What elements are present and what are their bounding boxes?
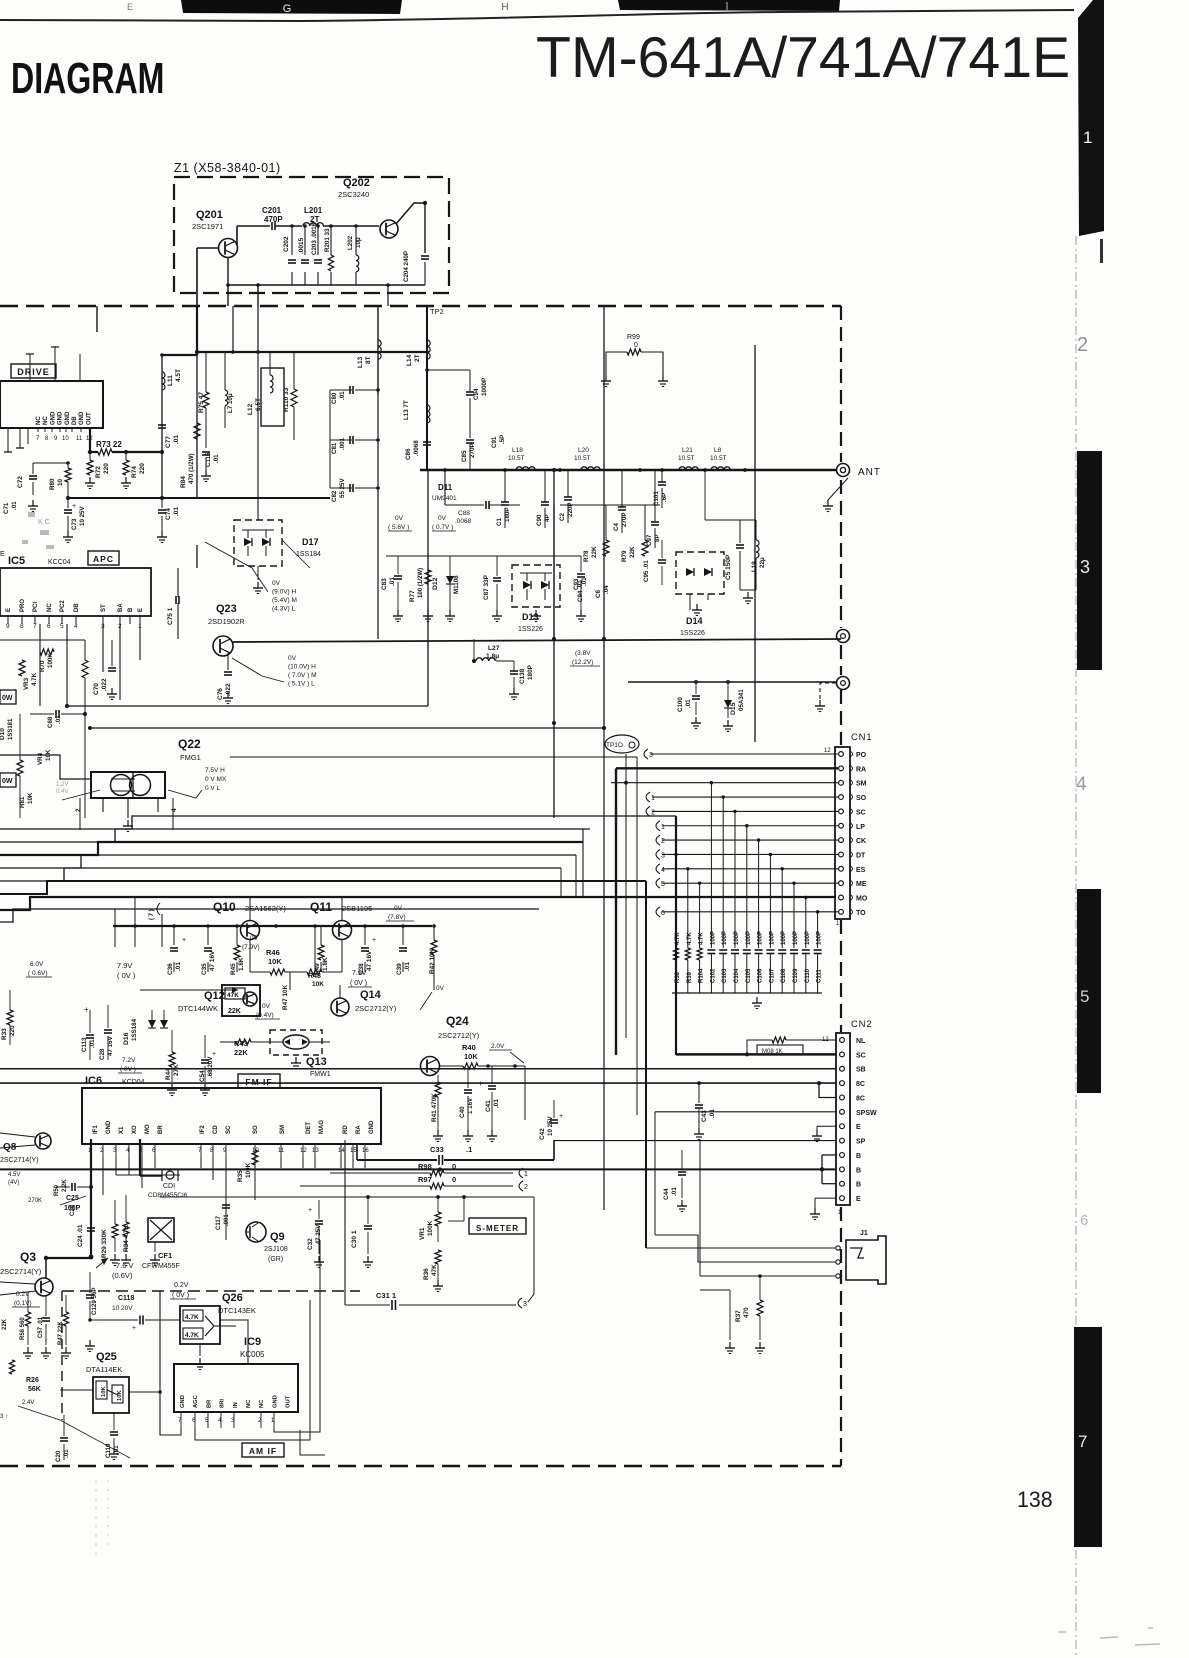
svg-text:R36: R36 <box>423 1268 430 1280</box>
svg-text:IF2: IF2 <box>200 1125 206 1134</box>
svg-text:6: 6 <box>1080 1212 1088 1229</box>
svg-text:C90: C90 <box>536 514 543 526</box>
svg-text:CFWM455F: CFWM455F <box>142 1263 180 1270</box>
svg-text:C57 .01: C57 .01 <box>38 1316 44 1338</box>
svg-text:SM: SM <box>856 781 867 788</box>
svg-text:GND: GND <box>106 1120 112 1134</box>
svg-text:R45: R45 <box>230 963 237 975</box>
svg-text:4: 4 <box>171 808 178 812</box>
svg-text:C82: C82 <box>331 490 338 502</box>
svg-text:GND: GND <box>65 411 71 425</box>
svg-text:R35: R35 <box>237 1170 244 1182</box>
svg-text:DTC143EK: DTC143EK <box>218 1306 256 1315</box>
svg-text:47 16V: 47 16V <box>209 950 216 971</box>
svg-text:PCI: PCI <box>33 602 39 612</box>
svg-text:VR1: VR1 <box>419 1227 426 1240</box>
svg-text:100P: 100P <box>805 931 811 945</box>
svg-text:10.5T: 10.5T <box>710 455 727 462</box>
svg-text:4P: 4P <box>544 514 551 522</box>
svg-text:270P: 270P <box>621 513 628 527</box>
svg-text:C5 150P: C5 150P <box>725 554 732 580</box>
svg-text:3 ↑: 3 ↑ <box>0 1414 8 1420</box>
svg-text:C36: C36 <box>167 963 174 975</box>
svg-text:C88: C88 <box>458 510 470 517</box>
svg-text:5: 5 <box>60 623 64 630</box>
svg-text:SC: SC <box>856 1052 866 1059</box>
svg-text:E: E <box>0 551 5 558</box>
svg-text:(4.3V) L: (4.3V) L <box>272 606 296 613</box>
svg-text:270K: 270K <box>28 1198 42 1204</box>
svg-text:2SC1971: 2SC1971 <box>192 222 223 231</box>
svg-text:C91: C91 <box>491 436 498 448</box>
svg-text:.01: .01 <box>213 454 220 463</box>
svg-text:LP: LP <box>856 824 865 831</box>
svg-text:C43: C43 <box>701 1110 708 1122</box>
svg-text:D17: D17 <box>302 537 319 547</box>
svg-text:.01: .01 <box>685 699 692 708</box>
svg-text:R70: R70 <box>39 660 46 672</box>
svg-text:2SD1902R: 2SD1902R <box>208 617 245 626</box>
svg-text:Q12: Q12 <box>204 990 225 1002</box>
svg-text:4.7K: 4.7K <box>699 932 705 945</box>
svg-text:7.9V: 7.9V <box>117 961 132 970</box>
svg-text:R98: R98 <box>418 1162 432 1171</box>
svg-text:+: + <box>132 1325 136 1332</box>
svg-text:4.7K: 4.7K <box>185 1332 199 1339</box>
svg-text:C87 33P: C87 33P <box>483 574 490 600</box>
svg-text:B: B <box>856 1153 861 1160</box>
svg-text:7.9V: 7.9V <box>352 970 367 977</box>
svg-text:3: 3 <box>523 1301 527 1308</box>
svg-text:GND: GND <box>180 1395 186 1408</box>
svg-text:XO: XO <box>132 1125 138 1134</box>
svg-text:L13: L13 <box>357 356 364 368</box>
svg-text:(5.4V) M: (5.4V) M <box>272 597 297 604</box>
svg-text:470 (1/2W): 470 (1/2W) <box>188 453 195 484</box>
svg-text:D12: D12 <box>432 577 439 590</box>
svg-text:TM-641A/741A/741E: TM-641A/741A/741E <box>536 26 1070 90</box>
svg-text:R33: R33 <box>1 1028 8 1040</box>
svg-text:100K: 100K <box>427 1220 434 1236</box>
svg-text:SM: SM <box>280 1125 286 1134</box>
svg-text:(4V): (4V) <box>8 1180 19 1186</box>
svg-text:GND: GND <box>369 1120 375 1134</box>
svg-text:C68: C68 <box>47 716 54 728</box>
svg-text:DB: DB <box>74 603 80 612</box>
svg-text:SC: SC <box>856 809 866 816</box>
svg-text:2SC2714(Y): 2SC2714(Y) <box>0 1157 39 1164</box>
svg-text:4.7K: 4.7K <box>31 672 38 686</box>
svg-text:IN: IN <box>233 1402 239 1408</box>
svg-text:7.5V H: 7.5V H <box>205 767 225 774</box>
svg-text:22K: 22K <box>2 1318 8 1330</box>
svg-text:.0068: .0068 <box>413 440 420 456</box>
svg-text:470P: 470P <box>264 215 283 224</box>
svg-text:NL: NL <box>856 1038 866 1045</box>
svg-text:APC: APC <box>93 554 114 564</box>
svg-text:B: B <box>856 1182 861 1189</box>
svg-text:PRO: PRO <box>20 599 26 612</box>
svg-text:0V: 0V <box>250 935 259 942</box>
svg-text:+: + <box>212 1051 216 1058</box>
svg-text:M1108: M1108 <box>453 575 460 594</box>
svg-text:RA: RA <box>856 766 866 773</box>
svg-text:180P: 180P <box>527 664 534 680</box>
svg-text:.022: .022 <box>101 678 108 691</box>
svg-text:PO: PO <box>856 752 867 759</box>
svg-text:100P: 100P <box>746 931 752 945</box>
svg-text:ME: ME <box>856 881 867 888</box>
svg-text:C1: C1 <box>496 518 503 526</box>
svg-text:3: 3 <box>661 852 665 859</box>
svg-text:+: + <box>478 1079 483 1088</box>
svg-text:0V: 0V <box>394 905 403 912</box>
svg-text:C118: C118 <box>118 1295 134 1302</box>
svg-text:C95 .01: C95 .01 <box>643 560 650 582</box>
svg-text:C101: C101 <box>653 491 660 506</box>
svg-text:4: 4 <box>661 867 665 874</box>
svg-text:.001: .001 <box>339 437 346 450</box>
svg-text:BA: BA <box>118 603 124 612</box>
svg-text:100P: 100P <box>758 931 764 945</box>
svg-text:KCD04: KCD04 <box>122 1079 145 1086</box>
svg-text:C94: C94 <box>473 388 480 400</box>
svg-text:C117: C117 <box>216 1215 222 1230</box>
svg-text:2: 2 <box>1077 334 1088 356</box>
svg-text:4.5V: 4.5V <box>8 1172 20 1178</box>
svg-text:ES: ES <box>856 867 866 874</box>
svg-text:CN1: CN1 <box>851 732 872 743</box>
svg-text:R79: R79 <box>621 550 628 562</box>
svg-text:SO: SO <box>856 795 867 802</box>
svg-text:(9.0V) H: (9.0V) H <box>272 589 297 596</box>
svg-text:2: 2 <box>75 808 82 812</box>
svg-text:2SC2712(Y): 2SC2712(Y) <box>355 1004 397 1013</box>
svg-text:VR3: VR3 <box>23 677 30 690</box>
svg-text:0V: 0V <box>272 580 281 587</box>
svg-text:1.8K: 1.8K <box>238 957 245 971</box>
svg-text:C83: C83 <box>381 578 388 590</box>
svg-text:L13 7T: L13 7T <box>403 400 410 420</box>
svg-text:100P: 100P <box>769 931 775 945</box>
svg-text:27K: 27K <box>173 1064 180 1076</box>
svg-text:C202: C202 <box>283 236 290 252</box>
svg-text:0W: 0W <box>2 695 13 702</box>
svg-text:Q3: Q3 <box>20 1250 36 1264</box>
svg-text:SC: SC <box>226 1125 232 1134</box>
svg-text:Q11: Q11 <box>310 900 332 914</box>
svg-text:9: 9 <box>6 623 10 630</box>
svg-text:13: 13 <box>312 1148 319 1154</box>
svg-text:CD8M455CI6: CD8M455CI6 <box>148 1192 188 1199</box>
svg-text:05A341: 05A341 <box>738 689 745 711</box>
svg-text:10 20V: 10 20V <box>112 1305 133 1312</box>
svg-text:C20: C20 <box>70 1204 76 1216</box>
svg-text:10.5T: 10.5T <box>508 455 525 462</box>
svg-text:SPSW: SPSW <box>856 1110 877 1117</box>
svg-text:(7.9V): (7.9V) <box>242 944 260 951</box>
svg-text:FMW1: FMW1 <box>310 1071 331 1078</box>
svg-text:1: 1 <box>524 1171 528 1178</box>
svg-text:C80: C80 <box>331 392 338 404</box>
svg-text:( 0V ): ( 0V ) <box>117 971 136 980</box>
svg-text:R46: R46 <box>266 948 280 957</box>
svg-text:FMG1: FMG1 <box>180 753 201 762</box>
svg-text:B: B <box>128 607 134 612</box>
svg-text:10μ: 10μ <box>355 237 362 248</box>
svg-text:0V: 0V <box>395 515 404 522</box>
svg-text:220: 220 <box>103 463 110 474</box>
svg-text:E: E <box>6 608 12 612</box>
svg-text:R26: R26 <box>26 1377 39 1384</box>
svg-text:DTC144WK: DTC144WK <box>178 1004 218 1013</box>
svg-text:AM IF: AM IF <box>249 1446 277 1456</box>
svg-text:.01: .01 <box>11 501 18 510</box>
svg-text:1: 1 <box>661 824 665 831</box>
svg-text:10K: 10K <box>101 1386 107 1397</box>
svg-text:0V: 0V <box>288 655 297 662</box>
svg-text:2: 2 <box>661 838 665 845</box>
svg-text:ST: ST <box>101 604 107 612</box>
svg-text:+: + <box>308 1207 312 1214</box>
svg-text:7.2V: 7.2V <box>122 1057 136 1064</box>
svg-text:K C: K C <box>38 519 50 526</box>
svg-text:( 0.7V ): ( 0.7V ) <box>432 524 453 531</box>
svg-text:100P: 100P <box>817 931 823 945</box>
svg-text:(7.8V): (7.8V) <box>388 914 406 921</box>
svg-text:Q14: Q14 <box>360 989 382 1001</box>
svg-text:NC: NC <box>259 1399 265 1408</box>
svg-text:Q13: Q13 <box>306 1056 327 1068</box>
svg-text:Z1 (X58-3840-01): Z1 (X58-3840-01) <box>174 161 281 175</box>
svg-text:2SC2714(Y): 2SC2714(Y) <box>0 1267 42 1276</box>
svg-text:C72: C72 <box>17 476 24 488</box>
svg-text:2: 2 <box>651 809 655 816</box>
svg-text:Q23: Q23 <box>216 603 237 615</box>
svg-text:C32: C32 <box>307 1238 314 1250</box>
svg-text:5: 5 <box>1080 987 1089 1006</box>
svg-text:+: + <box>372 937 376 944</box>
svg-text:B: B <box>856 1167 861 1174</box>
svg-text:2SC2712(Y): 2SC2712(Y) <box>438 1031 480 1040</box>
svg-text:.01: .01 <box>404 962 411 971</box>
svg-text:C76: C76 <box>217 688 224 700</box>
svg-text:10K: 10K <box>312 981 324 988</box>
svg-text:0: 0 <box>634 342 638 349</box>
svg-text:2.4V: 2.4V <box>22 1400 34 1406</box>
svg-text:NC: NC <box>47 603 53 612</box>
svg-text:R29 330K: R29 330K <box>101 1229 108 1258</box>
svg-text:C203 .0018: C203 .0018 <box>311 222 318 255</box>
svg-text:7.6 V: 7.6 V <box>116 1261 134 1270</box>
svg-text:22μ: 22μ <box>759 557 766 568</box>
svg-text:BR: BR <box>206 1399 212 1408</box>
svg-text:2: 2 <box>524 1184 528 1191</box>
svg-text:C39: C39 <box>396 963 403 975</box>
svg-text:R77: R77 <box>409 590 416 602</box>
svg-text:C70: C70 <box>93 683 100 695</box>
svg-text:C201: C201 <box>262 206 282 215</box>
svg-text:5: 5 <box>661 881 665 888</box>
svg-text:.01: .01 <box>671 1187 678 1196</box>
svg-text:C2: C2 <box>559 513 566 521</box>
svg-text:10K: 10K <box>464 1052 478 1061</box>
svg-text:470: 470 <box>743 1307 750 1318</box>
svg-text:(0.1V): (0.1V) <box>14 1300 32 1307</box>
svg-text:KC005: KC005 <box>240 1350 265 1359</box>
svg-text:KCC04: KCC04 <box>48 559 71 566</box>
svg-text:L12: L12 <box>247 403 254 415</box>
svg-text:Q201: Q201 <box>196 209 223 221</box>
svg-text:OUT: OUT <box>86 412 92 425</box>
svg-text:R47 10K: R47 10K <box>282 984 289 1010</box>
svg-text:(3.8V: (3.8V <box>575 650 591 657</box>
svg-text:R201 33: R201 33 <box>324 228 331 252</box>
svg-text:DIAGRAM: DIAGRAM <box>11 54 164 103</box>
svg-text:C74: C74 <box>165 508 172 520</box>
svg-text:(10.0V) H: (10.0V) H <box>288 664 316 671</box>
svg-text:47K: 47K <box>227 992 239 999</box>
svg-text:R84: R84 <box>180 476 187 488</box>
svg-text:D15: D15 <box>730 702 737 715</box>
svg-text:1000P: 1000P <box>481 378 488 396</box>
svg-text:.01: .01 <box>493 1099 500 1108</box>
svg-text:.01: .01 <box>173 507 180 516</box>
svg-text:.01: .01 <box>581 577 588 586</box>
svg-text:C6: C6 <box>595 590 602 598</box>
svg-text:6: 6 <box>661 910 665 917</box>
svg-text:180P: 180P <box>504 508 511 522</box>
svg-text:C85: C85 <box>461 450 468 462</box>
svg-text:NC: NC <box>246 1399 252 1408</box>
svg-text:+: + <box>559 1113 563 1120</box>
svg-text:.01: .01 <box>389 577 396 586</box>
svg-text:100P: 100P <box>722 931 728 945</box>
svg-text:R74: R74 <box>131 466 138 478</box>
svg-text:100P: 100P <box>734 931 740 945</box>
svg-text:DT: DT <box>856 852 866 859</box>
svg-text:.01: .01 <box>709 1109 716 1118</box>
svg-text:2SA1562(Y): 2SA1562(Y) <box>245 904 286 913</box>
svg-text:(0.4V): (0.4V) <box>256 1012 274 1019</box>
svg-text:.01: .01 <box>175 962 182 971</box>
svg-text:2SB1195: 2SB1195 <box>342 904 372 913</box>
svg-text:22K: 22K <box>228 1008 241 1015</box>
svg-text:NC: NC <box>43 416 49 425</box>
svg-text:( 7 ): ( 7 ) <box>149 909 155 920</box>
svg-text:220: 220 <box>139 463 146 474</box>
svg-text:D10: D10 <box>0 728 6 740</box>
svg-text:3: 3 <box>649 752 653 759</box>
svg-text:100P: 100P <box>793 931 799 945</box>
svg-text:1SS226: 1SS226 <box>680 630 705 637</box>
svg-text:C28: C28 <box>99 1048 106 1060</box>
svg-text:1: 1 <box>651 795 655 802</box>
svg-text:GND: GND <box>272 1395 278 1408</box>
svg-text:R99: R99 <box>627 334 640 341</box>
svg-text:0V: 0V <box>436 985 445 992</box>
svg-text:10.5T: 10.5T <box>678 455 695 462</box>
svg-text:BR: BR <box>158 1125 164 1134</box>
svg-text:0.2V: 0.2V <box>174 1282 189 1289</box>
svg-text:(0.6V): (0.6V) <box>112 1271 133 1280</box>
svg-text:CF1: CF1 <box>158 1251 172 1260</box>
svg-text:.01: .01 <box>173 435 180 444</box>
svg-text:C100: C100 <box>677 697 684 712</box>
svg-text:4: 4 <box>1076 774 1087 795</box>
svg-text:2SJ108: 2SJ108 <box>264 1246 288 1253</box>
svg-text:8: 8 <box>20 623 24 630</box>
svg-text:IC9: IC9 <box>244 1336 261 1348</box>
svg-text:MO: MO <box>856 896 868 903</box>
svg-text:8C: 8C <box>856 1081 865 1088</box>
svg-text:ANT: ANT <box>858 467 881 478</box>
svg-text:L27: L27 <box>488 645 500 652</box>
svg-text:SB: SB <box>856 1067 866 1074</box>
svg-text:C119: C119 <box>105 1443 112 1458</box>
svg-text:DTA114EK: DTA114EK <box>86 1365 122 1374</box>
svg-text:C73: C73 <box>71 518 78 530</box>
svg-text:R78: R78 <box>583 550 590 562</box>
svg-text:C42: C42 <box>539 1128 546 1140</box>
svg-text:( 0.6V): ( 0.6V) <box>28 970 48 977</box>
svg-text:100P: 100P <box>781 931 787 945</box>
svg-text:12: 12 <box>300 1148 307 1154</box>
svg-text:R40: R40 <box>462 1043 476 1052</box>
svg-text:L8: L8 <box>714 447 722 454</box>
svg-text:R80: R80 <box>49 478 56 490</box>
svg-text:E: E <box>127 2 133 12</box>
svg-text:C31 1: C31 1 <box>376 1291 396 1300</box>
svg-text:DB: DB <box>72 416 78 425</box>
svg-text:TP2: TP2 <box>430 307 444 316</box>
svg-text:C40: C40 <box>459 1106 466 1118</box>
svg-text:.68 20V: .68 20V <box>207 1056 214 1078</box>
svg-text:.01: .01 <box>339 391 346 400</box>
svg-text:R72: R72 <box>95 466 102 478</box>
svg-text:C30 1: C30 1 <box>351 1230 358 1248</box>
svg-text:C113: C113 <box>81 1037 88 1052</box>
svg-text:IF1: IF1 <box>93 1125 99 1134</box>
svg-text:L14: L14 <box>406 354 413 366</box>
svg-text:C81: C81 <box>331 442 338 454</box>
svg-text:10K: 10K <box>117 1390 123 1401</box>
svg-text:GND: GND <box>50 411 56 425</box>
svg-text:Q202: Q202 <box>343 177 370 189</box>
svg-text:C204 240P: C204 240P <box>403 251 410 282</box>
svg-text:7: 7 <box>33 623 37 630</box>
svg-text:( 5.1V ) L: ( 5.1V ) L <box>288 681 315 688</box>
svg-text:0 V MX: 0 V MX <box>205 776 227 783</box>
svg-text:138: 138 <box>1017 1486 1053 1512</box>
svg-text:.0015: .0015 <box>298 237 305 254</box>
svg-text:D16: D16 <box>123 1032 130 1045</box>
svg-text:CDI: CDI <box>163 1183 175 1190</box>
svg-text:C4: C4 <box>613 523 620 531</box>
svg-text:47 16V: 47 16V <box>366 950 373 971</box>
svg-text:R73 22: R73 22 <box>96 440 122 449</box>
svg-text:C77: C77 <box>165 436 172 448</box>
svg-text:100K: 100K <box>245 1162 252 1178</box>
svg-text:8T: 8T <box>365 356 372 364</box>
svg-text:Q24: Q24 <box>446 1014 469 1028</box>
svg-text:0: 0 <box>452 1162 456 1171</box>
svg-text:C97: C97 <box>646 534 653 546</box>
svg-text:C138: C138 <box>519 668 526 684</box>
svg-text:C71: C71 <box>3 502 10 514</box>
svg-text:1.8K: 1.8K <box>322 957 329 971</box>
svg-text:0 V L: 0 V L <box>205 785 221 792</box>
